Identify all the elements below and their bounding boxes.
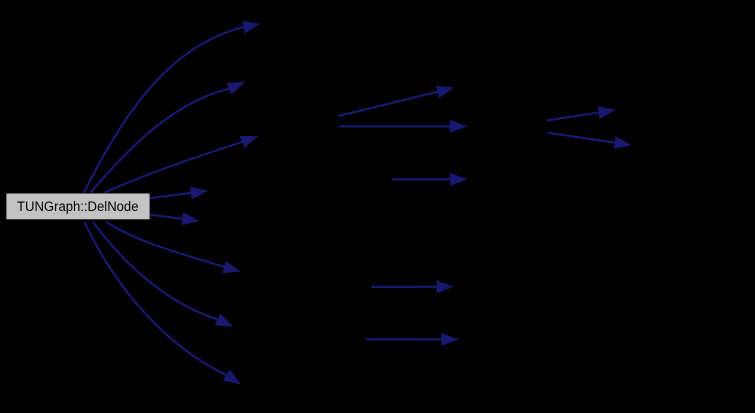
edge: level-2 node -> level-3 node upper (arrowhead at 453,88) bbox=[338, 86, 453, 116]
svg-text:TUNGraph::DelNode: TUNGraph::DelNode bbox=[17, 199, 139, 215]
edge: TUNGraph::DelNode -> callee row 1 (curved, arrowhead at 259,24) bbox=[84, 22, 259, 193]
edge: level-2 node -> level-3 node (horizontal, arrowhead at 457,339) bbox=[366, 334, 457, 346]
edge: TUNGraph::DelNode -> callee row 7 (curved, arrowhead at 232,326) bbox=[93, 222, 232, 326]
edge: TUNGraph::DelNode -> callee row 3 (arrowhead at 257,136) bbox=[105, 136, 258, 192]
edge: level-3 node -> level-4 node lower (arrowhead at 630,145) bbox=[547, 133, 630, 149]
edge: level-2 node -> level-3 node (horizontal, arrowhead at 466,179) bbox=[392, 174, 467, 186]
node TUNGraph::DelNode (current node, grey fill) bbox=[6, 194, 149, 220]
edge: level-2 node -> level-3 node (horizontal, arrowhead at 453,287) bbox=[372, 281, 453, 293]
edge: level-3 node -> level-4 node upper (arrowhead at 614,110) bbox=[547, 107, 615, 121]
edge: level-2 node -> level-3 node (horizontal, arrowhead at 466,126) bbox=[339, 121, 466, 133]
edge: TUNGraph::DelNode -> callee row 4 (short, arrowhead at 207,191) bbox=[150, 187, 207, 198]
edge: TUNGraph::DelNode -> callee row 6 (curved, arrowhead at 239,271) bbox=[106, 222, 240, 273]
edge: TUNGraph::DelNode -> callee row 2 (curved, arrowhead at 243,83) bbox=[91, 83, 244, 193]
edge: TUNGraph::DelNode -> callee row 8 (curved, arrowhead at 240,384) bbox=[84, 222, 240, 384]
edge: TUNGraph::DelNode -> callee row 5 (short, arrowhead at 198,221) bbox=[150, 213, 198, 224]
